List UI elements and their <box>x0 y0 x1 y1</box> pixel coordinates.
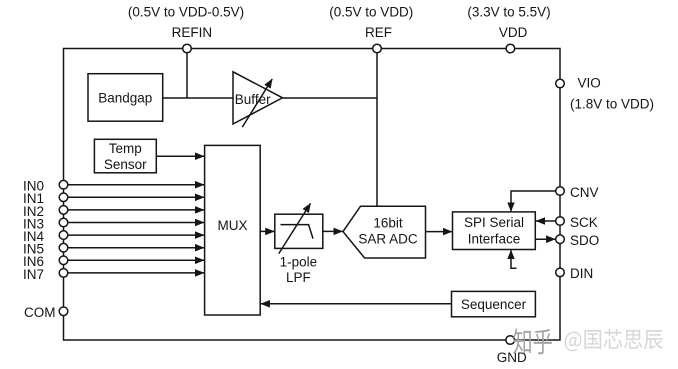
svg-text:COM: COM <box>24 305 56 320</box>
wire CNV to SPI <box>511 191 556 211</box>
svg-text:REF: REF <box>365 25 392 40</box>
wire ADC to SPI <box>426 231 452 233</box>
wire IN7 to MUX <box>68 272 204 274</box>
block Sequencer <box>452 291 536 316</box>
pin CNV <box>556 187 565 196</box>
svg-text:GND: GND <box>497 350 527 365</box>
wire SPI to SDO <box>535 238 555 240</box>
pin REF <box>373 44 382 53</box>
wire IN0 to MUX <box>68 184 204 186</box>
watermark zhihu logo <box>513 328 552 354</box>
pin IN5 <box>59 243 68 252</box>
block 16bit SAR ADC <box>343 206 426 258</box>
svg-text:DIN: DIN <box>570 266 593 281</box>
svg-text:1-pole: 1-pole <box>280 254 318 269</box>
svg-text:16bit: 16bit <box>373 216 403 231</box>
svg-text:(0.5V to VDD): (0.5V to VDD) <box>329 5 413 20</box>
wire Temp Sensor to MUX <box>156 155 204 157</box>
pin IN0 <box>59 180 68 189</box>
svg-text:Buffer: Buffer <box>235 92 271 107</box>
svg-text:Sequencer: Sequencer <box>461 297 527 312</box>
symbol LPF response <box>281 225 314 239</box>
block Bandgap <box>88 74 163 122</box>
pin IN6 <box>59 256 68 265</box>
wire IN1 to MUX <box>68 196 204 198</box>
wire SCK to SPI <box>536 220 556 222</box>
arrow Buffer adjust <box>242 79 272 127</box>
svg-text:REFIN: REFIN <box>172 25 213 40</box>
watermark author <box>565 329 663 351</box>
pin REFIN <box>183 44 192 53</box>
block SPI Serial Interface <box>453 212 536 250</box>
pin SDO <box>556 235 565 244</box>
svg-text:Sensor: Sensor <box>104 157 147 172</box>
pin COM <box>59 307 68 316</box>
pin IN7 <box>59 269 68 278</box>
pin GND <box>506 336 515 345</box>
chip boundary <box>64 49 561 341</box>
wire DIN stub to SPI <box>511 250 517 268</box>
pin VIO <box>556 79 565 88</box>
wire IN6 to MUX <box>68 259 204 261</box>
svg-text:Bandgap: Bandgap <box>98 90 152 105</box>
wire Buffer output <box>283 97 378 99</box>
wire Sequencer to MUX <box>261 303 452 305</box>
wire IN5 to MUX <box>68 247 204 249</box>
wire Bandgap to Buffer <box>163 97 233 99</box>
wire IN3 to MUX <box>68 222 204 224</box>
wire LPF to ADC <box>323 230 343 232</box>
block MUX <box>205 145 261 315</box>
svg-text:Temp: Temp <box>109 141 142 156</box>
svg-text:VDD: VDD <box>499 25 528 40</box>
arrow LPF adjust <box>279 203 311 253</box>
block LPF <box>275 214 323 248</box>
wire IN2 to MUX <box>68 209 204 211</box>
pin IN3 <box>59 218 68 227</box>
op-amp Buffer <box>233 72 283 124</box>
pin VDD <box>506 44 515 53</box>
wire REF to ADC <box>376 49 378 207</box>
svg-text:VIO: VIO <box>578 76 601 91</box>
svg-text:(1.8V to VDD): (1.8V to VDD) <box>570 96 654 111</box>
svg-text:SAR ADC: SAR ADC <box>358 232 418 247</box>
pin DIN <box>556 268 565 277</box>
svg-text:SPI Serial: SPI Serial <box>464 215 524 230</box>
svg-text:(3.3V to 5.5V): (3.3V to 5.5V) <box>467 5 550 20</box>
wire MUX to LPF <box>260 230 274 232</box>
pin IN2 <box>59 206 68 215</box>
svg-text:SCK: SCK <box>570 215 598 230</box>
svg-text:CNV: CNV <box>570 185 599 200</box>
svg-text:Interface: Interface <box>468 232 521 247</box>
svg-text:MUX: MUX <box>218 218 248 233</box>
svg-text:IN7: IN7 <box>23 267 44 282</box>
svg-text:(0.5V to VDD-0.5V): (0.5V to VDD-0.5V) <box>128 5 244 20</box>
pin SCK <box>556 217 565 226</box>
wire IN4 to MUX <box>68 234 204 236</box>
wire REFIN stub <box>186 49 188 99</box>
pin IN4 <box>59 231 68 240</box>
block Temp Sensor <box>94 139 156 173</box>
pin IN1 <box>59 193 68 202</box>
svg-text:SDO: SDO <box>570 233 599 248</box>
svg-text:LPF: LPF <box>286 270 311 285</box>
